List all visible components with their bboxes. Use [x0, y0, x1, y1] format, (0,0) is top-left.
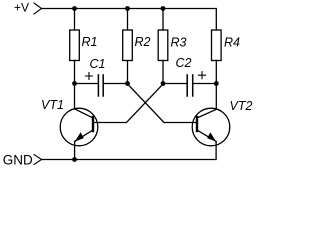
junction node top of R3 — [161, 6, 166, 11]
wire VT1 emitter to ground rail — [74, 142, 76, 160]
svg-text:C2: C2 — [176, 56, 192, 70]
capacitor C1 — [98, 75, 103, 96]
junction node A (VT1 collector, C1+) — [72, 81, 77, 86]
wire C1 right plate to node B — [104, 83, 128, 85]
svg-text:R1: R1 — [82, 35, 98, 49]
svg-text:R2: R2 — [135, 35, 151, 49]
wire R4 bottom to node D — [215, 61, 217, 84]
wire R3 bottom to node C — [162, 61, 164, 84]
svg-text:C1: C1 — [90, 57, 106, 71]
capacitor C2 — [187, 75, 193, 96]
junction node VT1 emitter on ground rail — [72, 157, 77, 162]
resistor R4 — [212, 30, 222, 61]
wire cross-coupling node B to VT2 base — [128, 84, 197, 123]
wire R3 top — [162, 9, 164, 31]
wire node C to C2 left plate — [163, 83, 187, 85]
wire node A to C1 left plate — [75, 83, 98, 85]
resistor R1 — [70, 30, 80, 61]
wire cross-coupling node C to VT1 base — [94, 84, 164, 123]
svg-text:R4: R4 — [224, 36, 240, 50]
transistor VT2 — [192, 108, 230, 146]
junction node top of R2 — [125, 6, 130, 11]
wire node D to VT2 collector — [215, 84, 217, 110]
GND connector — [34, 155, 42, 165]
wire VT2 emitter down and ground rail — [42, 142, 217, 160]
wire node A to VT1 collector — [74, 84, 76, 109]
svg-text:GND: GND — [3, 153, 33, 168]
wire top rail from +V to R4 corner — [42, 9, 217, 31]
C1 polarity plus sign — [86, 73, 93, 80]
svg-text:VT2: VT2 — [230, 99, 253, 113]
wire R1 bottom to node A — [74, 61, 76, 84]
svg-text:R3: R3 — [171, 36, 187, 50]
junction node top of R1 — [72, 6, 77, 11]
resistor R2 — [123, 30, 133, 61]
wire R2 top — [127, 9, 129, 31]
+V supply connector — [34, 3, 42, 14]
transistor VT1 — [60, 108, 98, 146]
wire C2 right plate to node D — [193, 83, 216, 85]
junction node C (R3, C2, VT1 base) — [161, 81, 166, 86]
wire R2 bottom to node B — [127, 61, 129, 84]
resistor R3 — [158, 30, 168, 61]
svg-text:+V: +V — [14, 1, 29, 15]
junction node D (VT2 collector, C2+) — [214, 81, 219, 86]
C2 polarity plus sign — [199, 72, 206, 79]
junction node B (R2, C1, VT2 base) — [125, 81, 130, 86]
wire R1 top — [74, 9, 76, 31]
svg-text:VT1: VT1 — [41, 98, 64, 112]
